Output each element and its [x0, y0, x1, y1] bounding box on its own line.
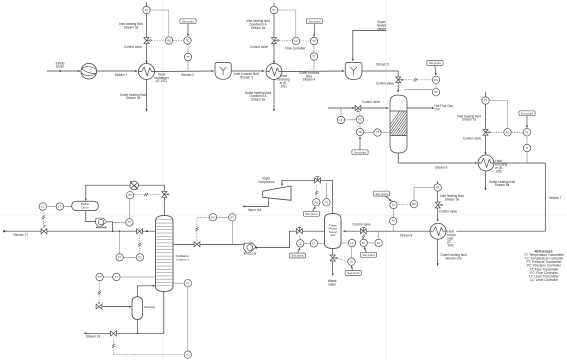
svg-text:Reboiler: Reboiler: [144, 305, 155, 309]
svg-text:Vapor out: Vapor out: [248, 208, 262, 212]
svg-text:Stream 6a: Stream 6a: [251, 98, 266, 102]
svg-text:Set point: Set point: [362, 253, 374, 257]
svg-text:Set point: Set point: [429, 61, 441, 65]
svg-text:103): 103): [495, 169, 501, 173]
svg-text:Stream 1: Stream 1: [115, 73, 128, 77]
svg-text:Flow controller: Flow controller: [285, 47, 305, 51]
svg-text:FC: FC: [358, 118, 362, 122]
svg-text:LC: LC: [350, 260, 353, 264]
svg-text:FT: FT: [118, 255, 122, 259]
svg-text:(E-101): (E-101): [156, 79, 166, 83]
svg-text:LT: LT: [58, 205, 61, 209]
svg-text:PC: PC: [434, 78, 438, 82]
svg-text:Control valve: Control valve: [463, 137, 482, 141]
svg-text:PT: PT: [325, 200, 329, 204]
svg-text:Stream 3: Stream 3: [240, 75, 253, 79]
svg-text:Set point: Set point: [305, 212, 317, 216]
svg-text:FC: FC: [362, 241, 366, 245]
svg-text:Stream 7: Stream 7: [549, 196, 562, 200]
svg-text:TC: TC: [186, 39, 190, 43]
svg-text:Column 1: Column 1: [176, 258, 189, 262]
svg-text:Control valve: Control valve: [376, 81, 395, 85]
svg-text:Control valve: Control valve: [124, 45, 143, 49]
svg-text:FC: FC: [211, 215, 215, 219]
svg-text:Stream 4a: Stream 4a: [126, 96, 141, 100]
svg-text:Stream 10a: Stream 10a: [445, 256, 461, 260]
svg-text:FT: FT: [377, 241, 381, 245]
svg-text:Stream 17: Stream 17: [14, 233, 29, 237]
svg-text:PT: PT: [128, 220, 132, 224]
svg-text:TT: TT: [186, 55, 190, 59]
svg-text:104): 104): [447, 243, 453, 247]
svg-text:Set point: Set point: [347, 271, 359, 275]
svg-text:PT: PT: [145, 8, 149, 12]
svg-text:TT: TT: [312, 55, 316, 59]
svg-text:AC: AC: [506, 130, 510, 134]
svg-text:FC: FC: [294, 39, 298, 43]
svg-text:Set point: Set point: [291, 254, 303, 258]
svg-text:TC: TC: [392, 203, 396, 207]
svg-text:Drum: Drum: [81, 205, 89, 209]
svg-text:Stream 8: Stream 8: [400, 233, 413, 237]
svg-text:Stream 7a: Stream 7a: [462, 118, 477, 122]
svg-text:Set point: Set point: [375, 192, 387, 196]
svg-text:Control valve: Control valve: [352, 222, 371, 226]
svg-text:PT: PT: [484, 99, 488, 103]
svg-text:LC: LC: [41, 205, 44, 209]
svg-text:AC: AC: [412, 202, 416, 206]
svg-text:Stream 9a: Stream 9a: [445, 197, 460, 201]
svg-text:LT: LT: [186, 281, 189, 285]
svg-text:Stream 8a: Stream 8a: [495, 183, 510, 187]
svg-text:enzen: enzen: [56, 65, 65, 69]
svg-text:Stream 5a: Stream 5a: [251, 26, 266, 30]
svg-text:TC: TC: [312, 39, 316, 43]
svg-text:TC: TC: [525, 130, 529, 134]
svg-text:TT: TT: [376, 131, 380, 135]
svg-text:TT: TT: [115, 275, 119, 279]
svg-text:Out: Out: [435, 108, 440, 112]
svg-text:ator: ator: [330, 233, 335, 237]
svg-text:TT: TT: [525, 146, 529, 150]
svg-text:Stream 4: Stream 4: [303, 78, 316, 82]
svg-text:AC: AC: [167, 39, 171, 43]
svg-text:Stream 6: Stream 6: [435, 166, 448, 170]
svg-text:PT: PT: [434, 90, 438, 94]
svg-text:LC: Level Controller: LC: Level Controller: [530, 278, 559, 282]
svg-text:TT: TT: [392, 219, 396, 223]
svg-text:TC: TC: [98, 275, 102, 279]
svg-text:LT: LT: [312, 241, 315, 245]
svg-text:Stream 2: Stream 2: [181, 73, 194, 77]
svg-text:PT: PT: [436, 186, 440, 190]
svg-text:Control valve: Control valve: [250, 45, 269, 49]
svg-text:Set point: Set point: [521, 111, 533, 115]
svg-text:LC: LC: [299, 241, 302, 245]
svg-text:Stream 3a: Stream 3a: [124, 26, 139, 30]
svg-text:Set point: Set point: [354, 150, 366, 154]
svg-text:PT: PT: [272, 8, 276, 12]
svg-text:Set point: Set point: [182, 19, 194, 23]
svg-text:LC: LC: [186, 353, 189, 357]
svg-text:102): 102): [280, 84, 286, 88]
svg-text:FT: FT: [231, 215, 235, 219]
svg-text:FT: FT: [339, 118, 343, 122]
svg-text:Stream 5: Stream 5: [376, 63, 389, 67]
svg-text:PC: PC: [314, 200, 318, 204]
svg-text:Control valve: Control valve: [362, 100, 381, 104]
svg-text:LT: LT: [351, 241, 354, 245]
svg-text:Control valve: Control valve: [439, 209, 458, 213]
svg-text:Stream 18: Stream 18: [86, 335, 101, 339]
svg-text:FC: FC: [138, 255, 142, 259]
svg-text:TC: TC: [358, 130, 362, 134]
svg-text:Compressor: Compressor: [258, 180, 275, 184]
svg-text:Set point: Set point: [308, 19, 320, 23]
svg-text:water: water: [328, 283, 336, 287]
svg-text:PC: PC: [128, 193, 132, 197]
